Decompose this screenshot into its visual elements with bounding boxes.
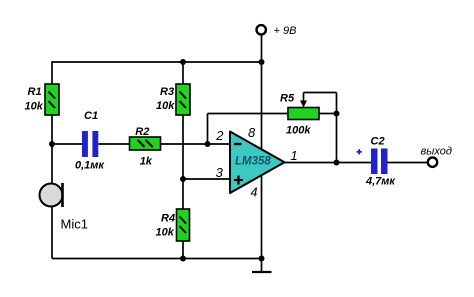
svg-text:4,7мк: 4,7мк: [365, 176, 396, 188]
node ground junction: [259, 256, 265, 262]
node feedback/pin2 junction: [205, 141, 211, 147]
svg-text:Mic1: Mic1: [61, 217, 88, 232]
wire signal line: [52, 143, 231, 145]
node output junction: [334, 160, 340, 166]
svg-text:0,1мк: 0,1мк: [75, 160, 105, 172]
svg-text:+ 9В: + 9В: [274, 25, 297, 37]
wire R3/R4 branch vertical: [182, 62, 184, 259]
svg-text:100k: 100k: [286, 125, 311, 137]
capacitor C2: [357, 136, 397, 188]
terminal +9V: [257, 25, 266, 34]
svg-text:3: 3: [216, 165, 224, 180]
svg-text:R4: R4: [161, 213, 175, 225]
node top R3 junction: [180, 59, 186, 65]
resistor R3: [156, 84, 190, 115]
svg-text:4: 4: [250, 185, 257, 200]
node R4 bottom junction: [180, 256, 186, 262]
potentiometer R5: [280, 93, 319, 137]
wire +9V stub: [261, 35, 263, 62]
svg-text:LM358: LM358: [235, 156, 271, 168]
wire pin 3: [183, 178, 231, 180]
svg-text:2: 2: [215, 128, 224, 143]
wire output: [284, 162, 427, 164]
wire R1 bottom to mic: [51, 115, 53, 184]
svg-text:8: 8: [248, 125, 256, 140]
resistor R4: [156, 209, 190, 241]
resistor R1: [25, 84, 60, 115]
wire pin 4 down: [261, 175, 263, 259]
svg-text:C1: C1: [84, 110, 98, 122]
wire bottom rail: [52, 258, 262, 260]
svg-text:10k: 10k: [156, 227, 175, 239]
svg-text:R5: R5: [280, 93, 295, 105]
wire mic to bottom rail: [51, 206, 53, 259]
node top +9V junction: [259, 59, 265, 65]
resistor R2: [130, 126, 161, 168]
node mic/R1/C1 junction: [49, 141, 55, 147]
svg-text:1k: 1k: [140, 156, 153, 168]
svg-text:R3: R3: [160, 86, 174, 98]
svg-text:10k: 10k: [156, 100, 175, 112]
svg-text:10k: 10k: [25, 101, 44, 113]
terminal output: [428, 158, 437, 167]
wire left rail upper: [51, 61, 53, 84]
wire feedback to R5: [208, 114, 289, 145]
op-amp U1 LM358: [230, 132, 285, 194]
wire R5 wiper bracket: [304, 93, 337, 163]
ground: [252, 259, 272, 273]
svg-text:1: 1: [290, 148, 297, 163]
svg-text:выход: выход: [421, 146, 452, 158]
node divider/pin3 junction: [180, 176, 186, 182]
node R5 right junction: [334, 111, 340, 117]
wire R5 right terminal: [319, 113, 337, 115]
microphone Mic1: [40, 183, 88, 232]
capacitor C1: [75, 110, 105, 171]
wire top rail: [52, 61, 262, 63]
svg-text:C2: C2: [371, 136, 385, 148]
svg-text:R2: R2: [135, 126, 149, 138]
svg-text:R1: R1: [28, 86, 42, 98]
wire +9V rail down to pin 8: [261, 62, 263, 151]
